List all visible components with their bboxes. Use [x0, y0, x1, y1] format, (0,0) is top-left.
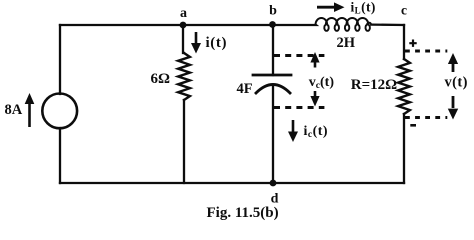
wire capacitor branch lower	[272, 85, 274, 183]
svg-text:R=12Ω: R=12Ω	[351, 77, 397, 93]
dashed line vc bottom	[274, 106, 324, 109]
node b	[269, 21, 276, 28]
svg-text:ic(t): ic(t)	[304, 124, 329, 140]
resistor 6ohm zigzag	[178, 53, 190, 100]
current source I1 circle	[42, 94, 77, 129]
plus sign	[409, 40, 416, 47]
wire 6-ohm branch upper	[183, 25, 184, 53]
inductor 2H coil	[316, 18, 372, 31]
dashed line v top	[405, 50, 447, 53]
arrow v up	[448, 53, 458, 72]
svg-text:c: c	[401, 3, 407, 18]
svg-text:Fig. 11.5(b): Fig. 11.5(b)	[207, 205, 279, 221]
arrow i(t) down	[191, 32, 201, 54]
resistor R=12ohm zigzag	[398, 59, 410, 114]
capacitor 4F top plate	[253, 74, 291, 77]
arrow iL right	[317, 2, 345, 12]
arrow v down	[448, 96, 458, 120]
wire top rail right of inductor to node c corner	[372, 23, 404, 26]
svg-text:6Ω: 6Ω	[151, 71, 171, 87]
capacitor 4F curved bottom plate	[256, 85, 290, 94]
svg-text:a: a	[180, 6, 187, 21]
wire left rail upper (source top lead)	[59, 25, 61, 94]
dashed line v bottom	[405, 116, 447, 119]
wire bottom rail	[60, 182, 404, 184]
svg-text:i(t): i(t)	[206, 35, 228, 51]
wire capacitor branch upper	[272, 24, 274, 75]
node a	[180, 22, 187, 29]
svg-text:b: b	[269, 4, 277, 19]
svg-text:v(t): v(t)	[445, 74, 468, 90]
svg-text:vc(t): vc(t)	[309, 75, 335, 91]
node d	[270, 180, 277, 187]
wire left rail lower (source bottom lead)	[59, 128, 61, 183]
arrow ic down	[288, 120, 298, 142]
svg-text:2H: 2H	[337, 35, 356, 51]
wire 6-ohm branch lower	[183, 100, 185, 183]
dashed line vc top	[274, 54, 324, 57]
svg-text:8A: 8A	[5, 102, 23, 118]
wire right rail upper (c to R)	[403, 25, 405, 59]
arrow vc down	[310, 91, 319, 107]
arrow vc up	[310, 52, 319, 68]
svg-text:4F: 4F	[237, 81, 253, 97]
arrow 8A up	[25, 93, 35, 127]
svg-text:iL(t): iL(t)	[351, 0, 376, 16]
wire top rail left: node a/b segment	[60, 23, 316, 26]
wire right rail lower (R to bottom)	[403, 114, 405, 183]
minus sign	[410, 124, 416, 127]
